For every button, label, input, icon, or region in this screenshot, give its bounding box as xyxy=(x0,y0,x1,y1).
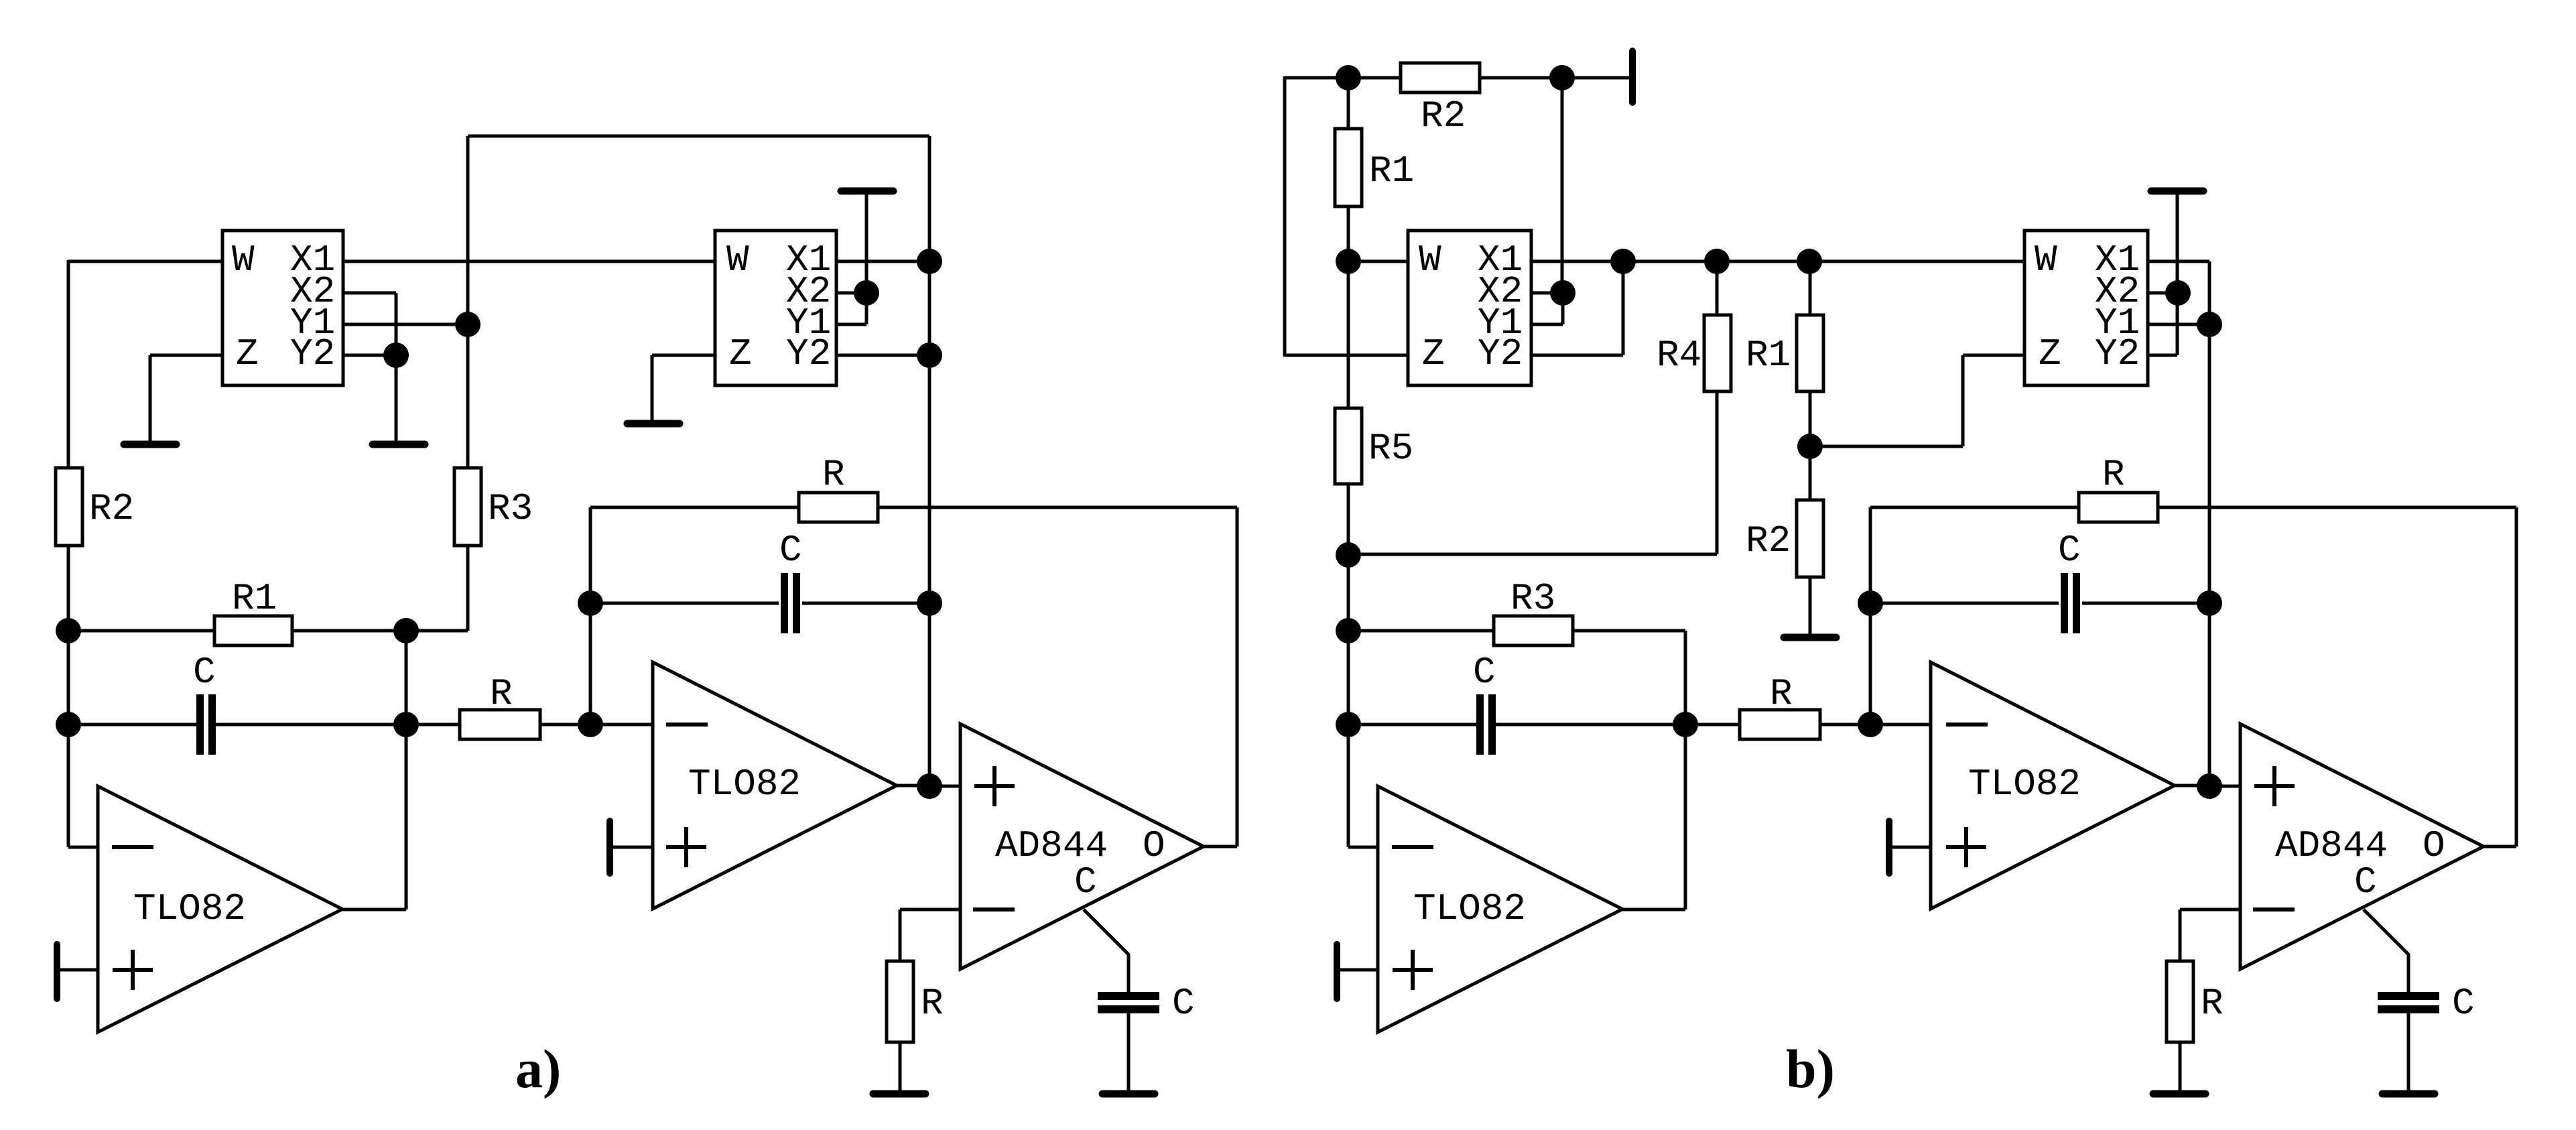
svg-text:R: R xyxy=(490,672,513,715)
svg-text:R: R xyxy=(1770,672,1793,715)
svg-text:TLO82: TLO82 xyxy=(1968,763,2081,806)
svg-text:b): b) xyxy=(1786,1038,1835,1099)
svg-text:C: C xyxy=(2452,982,2475,1025)
svg-text:W: W xyxy=(2035,239,2057,281)
svg-text:a): a) xyxy=(515,1038,561,1099)
svg-text:R: R xyxy=(822,453,845,496)
svg-text:TLO82: TLO82 xyxy=(133,887,246,930)
svg-text:Z: Z xyxy=(1422,332,1445,375)
svg-text:Y2: Y2 xyxy=(786,332,831,375)
svg-text:O: O xyxy=(2423,824,2445,867)
svg-text:C: C xyxy=(2058,529,2081,572)
svg-text:C: C xyxy=(779,529,802,572)
svg-text:TLO82: TLO82 xyxy=(688,763,801,806)
svg-text:Y2: Y2 xyxy=(2095,332,2140,375)
svg-text:C: C xyxy=(1172,982,1195,1025)
svg-text:C: C xyxy=(1074,861,1097,903)
svg-text:R2: R2 xyxy=(89,487,134,530)
svg-text:R4: R4 xyxy=(1657,334,1701,377)
svg-text:Y2: Y2 xyxy=(290,332,335,375)
svg-text:Y2: Y2 xyxy=(1478,332,1523,375)
svg-text:TLO82: TLO82 xyxy=(1413,887,1526,930)
svg-text:R1: R1 xyxy=(232,577,277,620)
svg-text:W: W xyxy=(726,239,749,281)
svg-text:C: C xyxy=(1473,651,1496,694)
svg-text:Z: Z xyxy=(236,332,259,375)
svg-text:R2: R2 xyxy=(1746,519,1791,562)
svg-text:R3: R3 xyxy=(488,487,533,530)
svg-text:C: C xyxy=(2354,861,2377,903)
svg-text:R: R xyxy=(921,982,944,1025)
svg-text:R1: R1 xyxy=(1369,149,1414,192)
svg-text:Z: Z xyxy=(729,332,752,375)
svg-text:W: W xyxy=(232,239,255,281)
svg-text:C: C xyxy=(193,651,216,694)
svg-text:R: R xyxy=(2102,453,2125,496)
svg-text:R: R xyxy=(2201,982,2224,1025)
svg-text:Z: Z xyxy=(2039,332,2061,375)
svg-text:R3: R3 xyxy=(1510,577,1555,620)
svg-text:R5: R5 xyxy=(1368,427,1413,470)
svg-text:R1: R1 xyxy=(1746,334,1791,377)
svg-text:R2: R2 xyxy=(1421,95,1466,137)
svg-text:O: O xyxy=(1143,824,1165,867)
svg-text:W: W xyxy=(1419,239,1441,281)
